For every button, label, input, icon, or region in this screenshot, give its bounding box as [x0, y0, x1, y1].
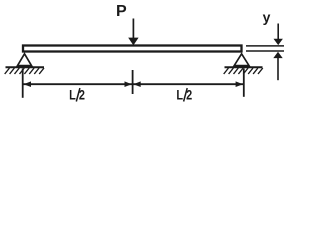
deflection dimension arrow down (head): [274, 39, 283, 45]
left support hatching: [5, 68, 44, 74]
left support ground line: [6, 66, 45, 68]
extension line left: [22, 69, 24, 98]
deflection dimension arrow up (shaft): [277, 57, 279, 80]
right support hatching: [224, 68, 263, 74]
deflection reference line (top): [246, 45, 284, 47]
span dimension line: [24, 83, 244, 85]
deflection dimension arrow down (shaft): [277, 24, 279, 40]
right pin support (triangle): [234, 54, 249, 66]
svg-text:L: L: [176, 87, 183, 103]
extension line right: [243, 69, 245, 97]
span label L/2 (right): [176, 87, 192, 103]
dimension arrowhead left (points left): [24, 81, 31, 87]
right support ground line: [225, 66, 263, 68]
svg-text:2: 2: [79, 87, 85, 103]
span label L/2 (left): [69, 87, 85, 103]
extension line middle: [132, 70, 134, 94]
deflection dimension arrow up (head): [273, 52, 282, 58]
svg-text:2: 2: [186, 87, 192, 103]
deflection reference line (bottom): [246, 50, 284, 52]
dimension arrowhead middle-right (points left): [133, 81, 140, 87]
load arrow P (head): [128, 38, 138, 46]
svg-text:P: P: [116, 3, 127, 20]
svg-text:L: L: [69, 87, 76, 103]
svg-text:y: y: [263, 9, 271, 25]
dimension arrowhead right (points right): [236, 81, 243, 87]
dimension arrowhead middle-left (points right): [125, 81, 132, 87]
left pin support (triangle): [18, 54, 32, 66]
beam (rectangle): [23, 46, 242, 52]
load arrow P (shaft): [132, 19, 134, 39]
